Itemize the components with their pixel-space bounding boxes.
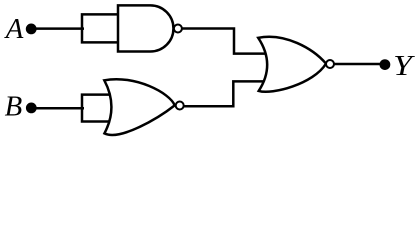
NOR gate U3: [258, 37, 326, 92]
terminal dot A: [26, 24, 37, 35]
wire A: [31, 27, 84, 30]
bubble U2: [176, 102, 184, 110]
wire U1 output to U3: [178, 29, 268, 54]
svg-text:B: B: [5, 90, 23, 122]
wire B: [31, 107, 84, 110]
terminal dot Y: [380, 59, 391, 70]
NAND gate U1: [118, 5, 173, 51]
svg-text:Y: Y: [393, 50, 415, 82]
NOR gate U2: [104, 79, 174, 135]
wire U2 output to U3: [180, 81, 268, 106]
terminal dot B: [26, 103, 37, 114]
input box U2: [82, 95, 113, 122]
wire U3 output to Y: [330, 63, 385, 66]
svg-text:A: A: [4, 13, 24, 45]
bubble U3: [326, 60, 334, 68]
bubble U1: [174, 25, 182, 33]
input box U1: [82, 14, 119, 42]
